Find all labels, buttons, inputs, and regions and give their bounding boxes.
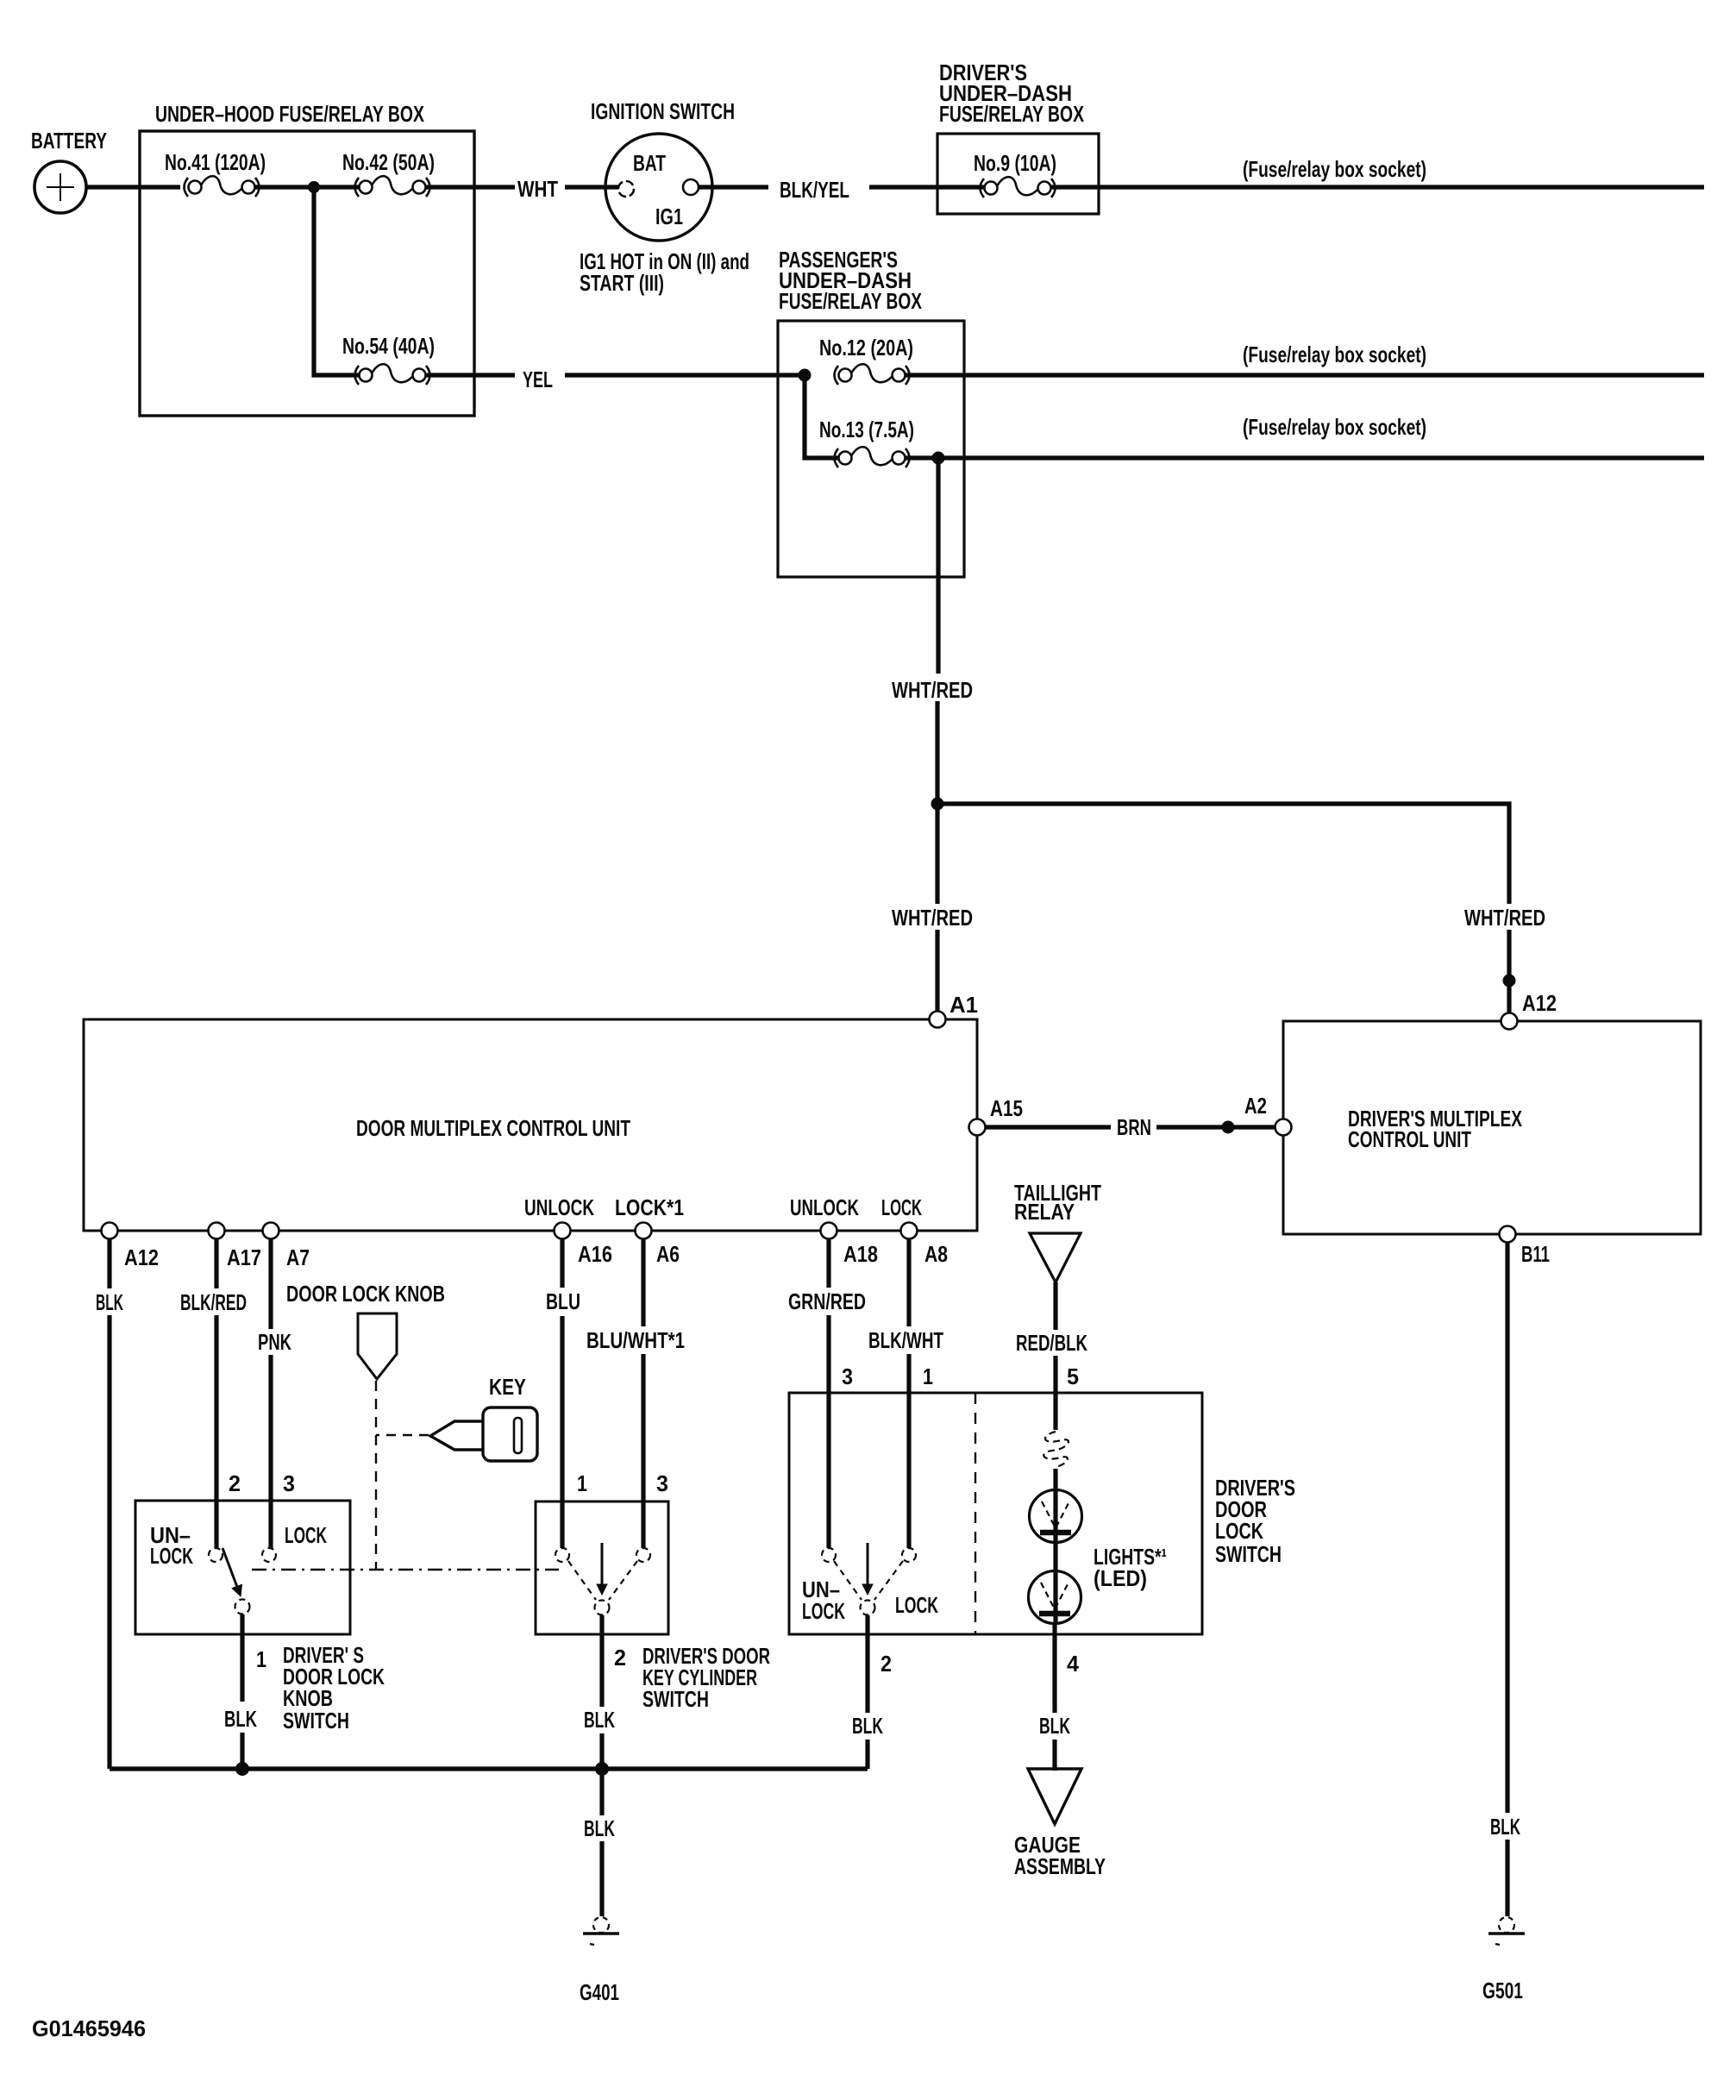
svg-text:LOCK: LOCK: [895, 1592, 938, 1618]
label GAUGE ASSEMBLY: [1014, 1832, 1106, 1879]
svg-text:BLK/RED: BLK/RED: [180, 1289, 247, 1315]
svg-text:LOCK: LOCK: [1215, 1518, 1263, 1544]
door lock knob symbol: [358, 1313, 397, 1379]
svg-text:BLU: BLU: [546, 1288, 580, 1314]
svg-text:A7: A7: [286, 1244, 310, 1270]
svg-text:SWITCH: SWITCH: [283, 1708, 349, 1733]
wire A16 down: [560, 1239, 564, 1288]
svg-text:BLK/YEL: BLK/YEL: [780, 177, 849, 203]
wire to A1: [935, 930, 939, 1012]
svg-text:(LED): (LED): [1094, 1565, 1147, 1591]
svg-text:CONTROL UNIT: CONTROL UNIT: [1348, 1126, 1471, 1152]
svg-text:WHT/RED: WHT/RED: [892, 905, 973, 931]
pin A16: [555, 1223, 571, 1239]
wire WHT/RED main vertical upper: [936, 458, 940, 674]
svg-text:LOCK*1: LOCK*1: [615, 1194, 684, 1220]
dashed divider: [975, 1393, 976, 1634]
pin labels bottom row: [124, 1241, 948, 1270]
pin A12 bottom: [102, 1223, 118, 1239]
lock switch lever: [867, 1543, 869, 1592]
svg-text:BLK: BLK: [1490, 1814, 1520, 1840]
key lever: [601, 1543, 604, 1592]
label UN-LOCK (lock switch): [802, 1577, 845, 1624]
svg-text:(Fuse/relay box socket): (Fuse/relay box socket): [1243, 342, 1426, 367]
svg-text:WHT: WHT: [517, 176, 558, 202]
wire junction down to fuse54: [314, 187, 362, 375]
wire knob BLK to bus: [240, 1733, 244, 1769]
svg-text:RELAY: RELAY: [1014, 1199, 1075, 1225]
wire A17 down into knob switch: [214, 1315, 218, 1548]
svg-text:ASSEMBLY: ASSEMBLY: [1014, 1853, 1106, 1879]
wire A18 down: [826, 1239, 830, 1288]
ground G501: [1488, 1917, 1525, 1945]
svg-text:A17: A17: [227, 1244, 261, 1270]
svg-text:WHT/RED: WHT/RED: [1464, 905, 1545, 931]
LED 2: [1029, 1571, 1081, 1624]
wire WHT/RED vertical to junction: [935, 701, 939, 904]
label TAILLIGHT RELAY: [1014, 1180, 1101, 1225]
battery: [31, 128, 107, 213]
dash-dot line knob lever to key cylinder: [252, 1569, 559, 1570]
wire A6 down: [641, 1239, 645, 1326]
svg-text:LOCK: LOCK: [802, 1598, 845, 1624]
taillight relay symbol: [1030, 1233, 1081, 1282]
pin A2: [1275, 1119, 1292, 1136]
svg-text:A1: A1: [949, 992, 978, 1018]
wire key BLK to bus: [599, 1733, 604, 1769]
svg-text:DOOR LOCK KNOB: DOOR LOCK KNOB: [286, 1281, 445, 1307]
wire relay down: [1053, 1282, 1057, 1330]
junction under-hood: [308, 181, 320, 193]
lock switch dashed diagonal left: [834, 1561, 862, 1600]
wire fuse12 to socket 2: [905, 373, 1704, 377]
svg-text:A18: A18: [843, 1241, 878, 1267]
svg-text:A16: A16: [578, 1241, 612, 1267]
pin A12: [1501, 1013, 1518, 1030]
pin A17: [209, 1223, 225, 1239]
knob contact unlock: [209, 1548, 222, 1562]
svg-text:2: 2: [881, 1651, 892, 1677]
driver's door lock knob switch box: [135, 1501, 350, 1634]
svg-text:LOCK: LOCK: [150, 1543, 193, 1569]
LED 1: [1030, 1490, 1082, 1543]
svg-text:KEY: KEY: [489, 1374, 526, 1400]
svg-text:1: 1: [577, 1470, 587, 1496]
svg-text:SWITCH: SWITCH: [1215, 1541, 1282, 1567]
wire A7 down into knob switch: [268, 1355, 273, 1548]
label LIGHTS (LED): [1094, 1544, 1167, 1591]
ignition switch: [591, 98, 735, 241]
svg-text:4: 4: [1067, 1651, 1080, 1677]
svg-text:IG1: IG1: [655, 204, 683, 229]
ground bus wire: [110, 1766, 868, 1771]
junction WHT/RED branch: [931, 798, 944, 811]
dashed line knob down: [375, 1381, 377, 1570]
pin A7: [263, 1223, 279, 1239]
svg-text:START (III): START (III): [580, 270, 664, 296]
fuse No.41 (120A): [165, 149, 266, 197]
svg-text:3: 3: [842, 1363, 853, 1389]
wire lock switch BLK to bus corner: [865, 1740, 869, 1769]
lock switch contact 1: [902, 1548, 916, 1562]
svg-text:BATTERY: BATTERY: [31, 128, 107, 154]
svg-text:No.13 (7.5A): No.13 (7.5A): [819, 417, 914, 442]
wire fuse54 out of box (YEL): [426, 373, 515, 377]
svg-text:FUSE/RELAY BOX: FUSE/RELAY BOX: [939, 101, 1084, 127]
svg-text:2: 2: [229, 1470, 241, 1496]
svg-text:No.41 (120A): No.41 (120A): [165, 149, 266, 175]
svg-text:A8: A8: [924, 1241, 948, 1267]
driver's multiplex control unit box: [1283, 1021, 1701, 1234]
svg-text:A15: A15: [990, 1095, 1023, 1121]
svg-text:IGNITION SWITCH: IGNITION SWITCH: [591, 98, 735, 124]
driver's door key cylinder switch box: [536, 1501, 668, 1634]
pin A8: [901, 1223, 918, 1239]
svg-text:G501: G501: [1482, 1978, 1523, 2003]
junction fuse13 out: [932, 452, 945, 465]
wire lock switch common down: [865, 1615, 869, 1713]
fuse No.9 (10A): [974, 150, 1056, 197]
svg-text:1: 1: [256, 1646, 266, 1672]
svg-text:A12: A12: [1522, 990, 1557, 1016]
svg-text:(Fuse/relay box socket): (Fuse/relay box socket): [1243, 414, 1426, 440]
resistor (LED dropping): [1043, 1432, 1069, 1467]
junction bus key: [595, 1762, 609, 1776]
wire key junction down: [599, 1769, 604, 1815]
svg-text:DOOR MULTIPLEX CONTROL UNIT: DOOR MULTIPLEX CONTROL UNIT: [356, 1115, 630, 1141]
svg-text:No.9 (10A): No.9 (10A): [974, 150, 1056, 176]
svg-text:G401: G401: [580, 1979, 619, 2005]
svg-text:A2: A2: [1244, 1093, 1267, 1119]
wire to A12: [1507, 930, 1511, 1014]
wire B11 BLK to G501: [1505, 1840, 1509, 1916]
label DRIVER'S DOOR LOCK KNOB SWITCH: [283, 1642, 385, 1733]
fuse No.42 (50A): [342, 149, 435, 197]
svg-text:3: 3: [283, 1470, 295, 1496]
junction above A12: [1503, 975, 1516, 987]
wire LED2 down: [1052, 1623, 1056, 1713]
key contact 1: [555, 1548, 569, 1562]
label DRIVER'S DOOR KEY CYLINDER SWITCH: [642, 1643, 770, 1712]
wire resistor through LEDs: [1053, 1469, 1057, 1623]
svg-text:BLK: BLK: [584, 1815, 615, 1841]
svg-text:UNDER–HOOD FUSE/RELAY BOX: UNDER–HOOD FUSE/RELAY BOX: [155, 101, 424, 127]
svg-text:No.12 (20A): No.12 (20A): [819, 335, 913, 360]
wire A6 into key cylinder switch: [641, 1354, 645, 1548]
key dashed diagonal right: [609, 1561, 637, 1600]
knob lever: [222, 1548, 240, 1594]
svg-text:BAT: BAT: [633, 150, 666, 176]
wire RED/BLK into lock switch: [1053, 1356, 1057, 1430]
svg-text:No.42 (50A): No.42 (50A): [342, 149, 435, 175]
svg-text:GRN/RED: GRN/RED: [788, 1288, 866, 1314]
wire branch to right: [937, 804, 1509, 904]
driver's under-dash fuse/relay box: [937, 60, 1099, 214]
dashed line key tip: [376, 1434, 429, 1436]
junction bus knob: [235, 1762, 249, 1776]
wire fuse9 to socket 1: [1051, 185, 1704, 189]
ground G401: [583, 1917, 619, 1945]
fuse No.12 (20A): [819, 335, 913, 385]
svg-text:BLU/WHT*1: BLU/WHT*1: [586, 1327, 685, 1353]
svg-text:BLK: BLK: [96, 1289, 123, 1315]
svg-text:BLK/WHT: BLK/WHT: [868, 1327, 943, 1353]
svg-text:No.54 (40A): No.54 (40A): [342, 333, 435, 359]
svg-text:LOCK: LOCK: [285, 1522, 327, 1548]
knob contact lock: [262, 1548, 276, 1562]
svg-text:(Fuse/relay box socket): (Fuse/relay box socket): [1243, 156, 1426, 182]
svg-text:WHT/RED: WHT/RED: [892, 677, 973, 703]
wire A12 down to bus: [107, 1315, 111, 1769]
svg-text:5: 5: [1067, 1363, 1079, 1389]
svg-text:FUSE/RELAY BOX: FUSE/RELAY BOX: [779, 288, 922, 314]
key symbol: [430, 1407, 537, 1461]
junction passenger yel: [799, 369, 812, 382]
wire fuse13 to socket 3: [905, 455, 1704, 460]
junction BRN: [1222, 1121, 1235, 1134]
svg-text:RED/BLK: RED/BLK: [1016, 1330, 1087, 1356]
svg-text:A6: A6: [656, 1241, 680, 1267]
wire A8 into lock switch: [906, 1354, 911, 1548]
svg-text:UNLOCK: UNLOCK: [790, 1194, 859, 1220]
svg-text:G01465946: G01465946: [32, 2015, 146, 2041]
key common contact: [595, 1601, 610, 1615]
under-hood fuse/relay box: [140, 131, 474, 416]
door multiplex control unit box: [84, 1019, 977, 1231]
wire B11 down: [1505, 1243, 1509, 1813]
svg-text:2: 2: [614, 1645, 626, 1671]
svg-text:1: 1: [923, 1363, 933, 1389]
wire knob common down: [240, 1614, 244, 1702]
wire BLK/YEL to driver's box fuse9: [869, 185, 985, 189]
svg-text:UNLOCK: UNLOCK: [524, 1194, 594, 1220]
pin A6: [636, 1223, 652, 1239]
driver's door lock switch box: [789, 1393, 1202, 1634]
wire A8 down: [906, 1239, 911, 1326]
wire A16 into key cylinder switch: [560, 1316, 564, 1548]
lock switch common contact: [861, 1601, 875, 1615]
wire BLK to gauge assembly: [1052, 1740, 1056, 1771]
lock switch contact 3: [822, 1548, 836, 1562]
key contact 3: [636, 1548, 650, 1562]
wire ignition to BLK/YEL: [699, 185, 768, 189]
fuse No.54 (40A): [342, 333, 435, 385]
svg-text:B11: B11: [1521, 1241, 1550, 1267]
wire A17 down: [214, 1239, 218, 1288]
passenger's under-dash fuse/relay box: [778, 247, 964, 577]
label DRIVER'S DOOR LOCK SWITCH: [1215, 1475, 1295, 1567]
pin A15: [969, 1119, 986, 1136]
wire A12 down: [107, 1239, 111, 1288]
svg-text:BLK: BLK: [852, 1713, 883, 1739]
svg-text:LOCK: LOCK: [881, 1194, 922, 1220]
fuse No.13 (7.5A): [819, 417, 914, 467]
svg-text:BLK: BLK: [224, 1706, 257, 1732]
wire key common down: [599, 1615, 604, 1707]
wire battery to under-hood box: [86, 185, 180, 189]
key dashed diagonal left: [568, 1561, 596, 1600]
svg-text:BLK: BLK: [1039, 1713, 1070, 1739]
svg-text:3: 3: [656, 1470, 668, 1496]
svg-text:YEL: YEL: [523, 367, 553, 392]
wire A7 down: [268, 1239, 273, 1329]
wire A15 to BRN: [986, 1125, 1111, 1129]
pin B11: [1500, 1226, 1516, 1243]
lock switch dashed diagonal right: [874, 1561, 903, 1600]
svg-text:BLK: BLK: [584, 1707, 615, 1733]
wire fuse42 out of box (WHT): [426, 185, 515, 189]
gauge assembly symbol: [1028, 1769, 1081, 1824]
label UN-LOCK (knob): [150, 1522, 193, 1569]
knob common contact: [235, 1600, 250, 1614]
wire fuse41 to junction: [255, 185, 362, 189]
wire junction down to fuse13: [805, 375, 843, 458]
wire A18 into lock switch: [826, 1315, 830, 1548]
wire down to G401: [599, 1841, 604, 1916]
note IG1 HOT: [580, 248, 749, 296]
wire BRN to A2: [1156, 1125, 1275, 1129]
svg-text:A12: A12: [124, 1244, 159, 1270]
svg-text:SWITCH: SWITCH: [642, 1686, 709, 1712]
pin A18: [821, 1223, 837, 1239]
svg-text:BRN: BRN: [1117, 1114, 1151, 1140]
svg-text:PNK: PNK: [258, 1329, 291, 1355]
pin A1: [930, 1012, 946, 1028]
